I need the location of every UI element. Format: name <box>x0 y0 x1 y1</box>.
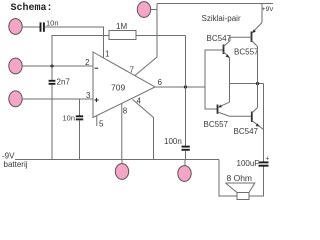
svg-text:1M: 1M <box>116 22 127 31</box>
Q1 emitter with arrow <box>224 52 230 58</box>
connector J6 (bottom, at 100n column) <box>184 160 186 167</box>
resistor R1 1M <box>109 31 136 40</box>
pin 5 stub <box>96 116 98 126</box>
svg-text:1: 1 <box>105 50 110 59</box>
svg-text:100uF: 100uF <box>237 159 260 168</box>
wire C1 to pin 1 <box>45 27 104 58</box>
Q3 collector <box>218 112 252 116</box>
connector J4 (top middle) <box>137 2 150 18</box>
pin 4 wire to -9V rail <box>133 99 154 159</box>
svg-text:2: 2 <box>85 58 90 67</box>
capacitor C1 10n <box>40 22 42 31</box>
collector column x257.5 <box>257 47 259 108</box>
wire C4 bottom to rail <box>185 151 187 160</box>
svg-text:5: 5 <box>99 120 104 129</box>
svg-text:3: 3 <box>86 91 91 100</box>
wire node A up to R1 <box>52 36 109 67</box>
wire J4 to +9V column <box>150 9 157 11</box>
wire pin 2 <box>22 65 93 67</box>
pin 8 wire to -9V rail <box>121 103 123 159</box>
emitter column x229.5 <box>229 58 231 103</box>
wire J1 to C1 <box>22 26 40 28</box>
svg-text:10n: 10n <box>46 19 59 28</box>
-9V rail <box>15 159 219 161</box>
svg-text:BC547: BC547 <box>234 127 259 136</box>
output drop to coupling cap <box>263 84 265 163</box>
svg-text:Sziklai-pair: Sziklai-pair <box>202 14 241 23</box>
Q4 collector <box>252 108 258 114</box>
svg-text:BC547: BC547 <box>207 34 232 43</box>
Q2 emitter from +9V with arrow into bar <box>252 23 262 33</box>
svg-text:BC557: BC557 <box>204 120 229 129</box>
connector J1 (input top-left) <box>9 19 22 35</box>
base column wire from output <box>205 50 224 109</box>
svg-text:7: 7 <box>130 66 135 75</box>
svg-text:4: 4 <box>137 97 142 106</box>
svg-text:-9V: -9V <box>2 152 15 161</box>
capacitor C2 2n7 <box>51 66 53 80</box>
wire C2 bottom to -9V rail (crosses pin3 wire) <box>51 85 53 160</box>
svg-text:BC557: BC557 <box>234 48 259 57</box>
Q4 emitter with arrow <box>252 121 264 130</box>
connector J3 (input lower-left) <box>9 91 22 107</box>
svg-text:8 Ohm: 8 Ohm <box>227 173 253 183</box>
capacitor C5 100uF <box>259 161 269 163</box>
connector J2 (input mid-left) <box>9 58 22 74</box>
svg-text:6: 6 <box>158 78 163 87</box>
Q2 base wire <box>230 36 252 38</box>
svg-text:8: 8 <box>123 107 128 116</box>
svg-text:batterij: batterij <box>4 160 28 169</box>
pin 7 wire to +9V <box>135 4 157 76</box>
output wire pin 6 <box>155 86 205 88</box>
wire pin 3 <box>22 98 93 100</box>
svg-text:+9V: +9V <box>262 6 273 13</box>
connector J5 (bottom, at pin8 column) <box>121 160 123 165</box>
svg-text:100n: 100n <box>164 137 182 146</box>
svg-text:709: 709 <box>111 83 125 93</box>
wire C5 bottom to speaker <box>249 167 264 197</box>
Q1 collector <box>224 37 231 46</box>
svg-text:2n7: 2n7 <box>57 78 71 87</box>
op-amp U1 709 <box>93 52 155 118</box>
capacitor C3 10n decoupling <box>79 99 81 116</box>
output node wire y83.5 <box>230 83 264 85</box>
wire C3 bottom to -9V rail <box>79 120 81 159</box>
junction dot feedback node <box>184 85 187 88</box>
svg-text:10n: 10n <box>63 114 76 123</box>
Q3 emitter from emitter column with arrow into bar <box>218 102 229 107</box>
Q2 collector <box>252 41 258 47</box>
wire R1 to feedback column <box>136 35 186 37</box>
+9V rail <box>157 3 273 5</box>
svg-text:+: + <box>265 156 269 163</box>
wire speaker left to -9V rail <box>219 160 237 197</box>
feedback / 100n column <box>185 36 187 147</box>
junction dot collectors <box>256 82 259 85</box>
junction node A <box>50 64 53 67</box>
capacitor C4 100n <box>182 146 190 148</box>
svg-text:Schema:: Schema: <box>11 2 53 14</box>
